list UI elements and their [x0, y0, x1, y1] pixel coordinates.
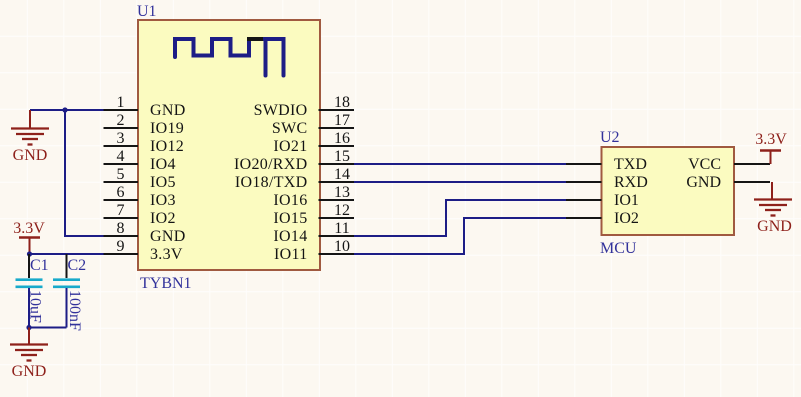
svg-text:C2: C2 [68, 257, 87, 274]
U2 pin IO1 [566, 192, 639, 209]
svg-text:3.3V: 3.3V [150, 246, 183, 263]
U2 pin GND [686, 174, 770, 191]
svg-text:SWC: SWC [272, 120, 308, 137]
wire: U1 pin 11 (IO14) to U2 IO1 [354, 200, 566, 236]
svg-text:16: 16 [334, 130, 350, 147]
wire: GND vertical down to U1 pin 8 [65, 110, 104, 236]
value 100nF (rotated) [66, 290, 83, 331]
power port 3.3V (bottom left) [13, 220, 45, 254]
U2 pin TXD [566, 156, 647, 173]
svg-text:IO14: IO14 [273, 228, 307, 245]
U1 pin 11 (IO14) [273, 220, 354, 245]
svg-text:2: 2 [117, 112, 125, 129]
U1 pin 10 (IO11) [274, 238, 354, 263]
value TYBN1 [140, 275, 192, 292]
U1 pin 15 (IO20/RXD) [234, 148, 354, 173]
svg-text:17: 17 [334, 112, 350, 129]
svg-text:IO2: IO2 [614, 210, 639, 227]
svg-text:IO19: IO19 [150, 120, 184, 137]
junction at capacitor GND node [26, 325, 31, 330]
svg-text:IO11: IO11 [274, 246, 308, 263]
svg-text:TYBN1: TYBN1 [140, 275, 192, 292]
U2 pin RXD [566, 174, 648, 191]
U1 pin 1 (GND) [104, 94, 186, 119]
svg-text:IO1: IO1 [614, 192, 639, 209]
svg-text:IO2: IO2 [150, 210, 176, 227]
svg-text:TXD: TXD [614, 156, 647, 173]
U1 antenna square-wave symbol [175, 39, 284, 76]
svg-text:IO16: IO16 [273, 192, 307, 209]
svg-text:VCC: VCC [688, 156, 721, 173]
U2 pin IO2 [566, 210, 639, 227]
designator U2 [600, 129, 620, 146]
U1 pin 2 (IO19) [104, 112, 185, 137]
U1 pin 14 (IO18/TXD) [235, 166, 354, 191]
ground symbol GND (bottom left) [10, 328, 48, 381]
IC U2 body (MCU) [602, 147, 735, 235]
svg-text:10: 10 [334, 238, 350, 255]
U1 pin 9 (3.3V) [104, 238, 183, 263]
wire: U1 pin 1 to GND net [30, 109, 104, 111]
svg-text:U1: U1 [137, 3, 157, 20]
junction at 3.3V / C1 node [27, 251, 32, 256]
svg-text:SWDIO: SWDIO [254, 102, 308, 119]
U1 pin 18 (SWDIO) [254, 94, 354, 119]
U1 pin 5 (IO5) [104, 166, 176, 191]
svg-text:GND: GND [686, 174, 721, 191]
svg-text:IO15: IO15 [273, 210, 307, 227]
U1 pin 16 (IO21) [273, 130, 354, 155]
svg-text:GND: GND [150, 102, 186, 119]
svg-text:GND: GND [757, 218, 792, 235]
svg-text:13: 13 [334, 184, 350, 201]
svg-text:6: 6 [117, 184, 125, 201]
svg-text:8: 8 [117, 220, 125, 237]
svg-text:C1: C1 [30, 257, 49, 274]
svg-text:GND: GND [12, 363, 47, 380]
wire: U1 pin 15 (IO20/RXD) to U2 TXD [354, 163, 566, 165]
svg-text:IO12: IO12 [150, 138, 184, 155]
svg-text:1: 1 [117, 94, 125, 111]
svg-text:11: 11 [334, 220, 349, 237]
U1 pin 17 (SWC) [272, 112, 354, 137]
ground symbol GND (top left) [11, 110, 49, 164]
svg-text:5: 5 [117, 166, 125, 183]
svg-text:IO18/TXD: IO18/TXD [235, 174, 308, 191]
svg-text:IO20/RXD: IO20/RXD [234, 156, 308, 173]
svg-text:4: 4 [117, 148, 125, 165]
U1 pin 3 (IO12) [104, 130, 185, 155]
svg-text:3.3V: 3.3V [13, 220, 45, 237]
svg-text:100nF: 100nF [66, 290, 83, 331]
capacitor C1 [16, 254, 43, 328]
svg-text:GND: GND [150, 228, 186, 245]
svg-text:MCU: MCU [600, 240, 637, 257]
junction on pin-1 GND wire [62, 107, 67, 112]
U1 pin 6 (IO3) [104, 184, 176, 209]
ground symbol GND (right, U2) [754, 182, 792, 235]
svg-text:10uF: 10uF [27, 290, 44, 323]
svg-text:18: 18 [334, 94, 350, 111]
power port 3.3V (top right) [755, 131, 787, 164]
U1 pin 4 (IO4) [104, 148, 176, 173]
designator C2 [68, 257, 87, 274]
value MCU [600, 240, 637, 257]
svg-text:3: 3 [117, 130, 125, 147]
svg-text:12: 12 [334, 202, 350, 219]
wire: U1 pin 14 (IO18/TXD) to U2 RXD [354, 181, 566, 183]
U1 pin 13 (IO16) [273, 184, 354, 209]
svg-text:3.3V: 3.3V [755, 131, 787, 148]
value 10uF (rotated) [27, 290, 44, 323]
wire: U1 pin 10 (IO11) to U2 IO2 [354, 218, 566, 254]
svg-text:IO4: IO4 [150, 156, 176, 173]
svg-text:IO5: IO5 [150, 174, 176, 191]
U2 pin VCC [688, 156, 770, 173]
svg-text:7: 7 [117, 202, 125, 219]
U1 pin 7 (IO2) [104, 202, 176, 227]
svg-text:14: 14 [334, 166, 350, 183]
svg-text:15: 15 [334, 148, 350, 165]
svg-text:RXD: RXD [614, 174, 648, 191]
svg-text:GND: GND [13, 147, 48, 164]
wire: 3.3V to U1 pin 9 [29, 253, 104, 255]
designator U1 [137, 3, 157, 20]
designator C1 [30, 257, 49, 274]
U1 pin 12 (IO15) [273, 202, 354, 227]
U1 pin 8 (GND) [104, 220, 186, 245]
svg-text:9: 9 [117, 238, 125, 255]
IC U1 body (TYBN1 wireless module) [138, 20, 320, 270]
svg-text:U2: U2 [600, 129, 620, 146]
wire: C2 bottom to C1 bottom (GND net) [29, 327, 67, 329]
capacitor C2 [53, 254, 80, 328]
svg-text:IO3: IO3 [150, 192, 176, 209]
svg-text:IO21: IO21 [273, 138, 307, 155]
